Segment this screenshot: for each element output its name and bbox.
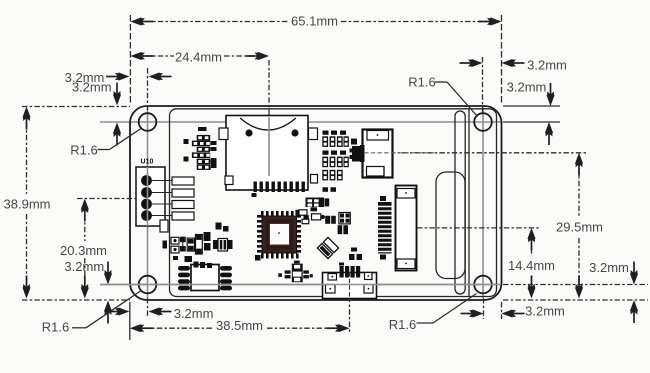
centerline horizontal through bottom holes bbox=[100, 284, 501, 286]
small parts left of MCU bbox=[255, 255, 261, 261]
crystal cross component bbox=[278, 261, 313, 283]
connector U10 bbox=[136, 159, 172, 227]
capacitor cluster right of SD bbox=[322, 131, 349, 181]
MCU QFP U2 bbox=[257, 211, 301, 259]
test pads bbox=[163, 237, 180, 253]
dim 29.5mm right bbox=[365, 153, 603, 299]
24.4 extension over SD socket bbox=[268, 117, 270, 176]
svg-text:R1.6: R1.6 bbox=[70, 143, 97, 158]
transistor U5 bbox=[350, 139, 365, 162]
svg-text:24.4mm: 24.4mm bbox=[175, 50, 222, 65]
resistor cluster left of SD bbox=[184, 127, 217, 170]
centerline over U10 bbox=[147, 167, 149, 226]
hole bottom-left bbox=[139, 276, 157, 294]
svg-text:3.2mm: 3.2mm bbox=[525, 304, 565, 319]
svg-text:3.2mm: 3.2mm bbox=[64, 259, 104, 274]
label R1.6 bottom-right bbox=[389, 294, 477, 332]
centerline horizontal through top holes bbox=[100, 121, 501, 123]
dim 3.2mm bottom-left vertical bbox=[64, 259, 112, 324]
centerline vertical through right holes bbox=[482, 108, 484, 298]
U10 pads bbox=[172, 177, 194, 220]
parts right-mid C6 R3 bbox=[349, 248, 362, 261]
svg-text:R1.6: R1.6 bbox=[42, 320, 69, 335]
display inner rect bbox=[170, 109, 497, 297]
svg-text:38.9mm: 38.9mm bbox=[4, 197, 51, 212]
hole top-left bbox=[139, 113, 157, 131]
dim 3.2mm far right vertical bbox=[503, 260, 648, 323]
38.5 extension over bottom connector bbox=[349, 272, 351, 299]
dim 3.2mm top-left vertical bbox=[72, 80, 121, 146]
bottom connector J4 bbox=[323, 263, 377, 299]
centerline vertical through left holes bbox=[147, 108, 149, 298]
dim 20.3mm left bbox=[60, 199, 136, 299]
svg-text:U10: U10 bbox=[141, 159, 154, 166]
svg-text:29.5mm: 29.5mm bbox=[556, 220, 603, 235]
centerline over bottom components bbox=[100, 284, 501, 286]
board outline bbox=[130, 106, 502, 300]
bottom edge extension left of board bbox=[22, 299, 130, 301]
fpc slot bbox=[455, 111, 465, 294]
hole top-right bbox=[474, 113, 492, 131]
SD pin row J1 bbox=[252, 182, 305, 198]
svg-text:R1.6: R1.6 bbox=[408, 75, 435, 90]
hole bottom-right bbox=[474, 276, 492, 294]
label R1.6 top-left bbox=[70, 129, 141, 158]
svg-text:R1.6: R1.6 bbox=[389, 317, 416, 332]
label R1.6 bottom-left bbox=[42, 291, 141, 335]
dim 3.2mm bottom-right horizontal bbox=[461, 298, 565, 319]
svg-text:3.2mm: 3.2mm bbox=[507, 80, 547, 95]
dim 24.4mm top bbox=[130, 50, 269, 177]
caps above SOIC bbox=[173, 223, 233, 269]
dim 65.1mm top bbox=[130, 13, 501, 104]
parts above MCU bbox=[295, 187, 350, 234]
SOIC8 flash U7 bbox=[178, 265, 232, 291]
dim 3.2mm top-right horizontal bbox=[460, 57, 567, 113]
svg-text:3.2mm: 3.2mm bbox=[527, 57, 567, 72]
glass edge line bbox=[468, 109, 470, 297]
svg-text:3.2mm: 3.2mm bbox=[72, 80, 112, 95]
fpc connector J2 bbox=[378, 186, 417, 271]
svg-text:3.2mm: 3.2mm bbox=[174, 306, 214, 321]
dim 14.4mm right bbox=[417, 228, 555, 299]
COMPONENTS bbox=[136, 116, 417, 299]
dim 3.2mm bottom-left horizontal bbox=[107, 298, 214, 321]
svg-text:38.5mm: 38.5mm bbox=[216, 318, 263, 333]
diamond parts bbox=[317, 237, 338, 258]
dim 3.2mm top-left horizontal bbox=[65, 68, 172, 110]
svg-text:3.2mm: 3.2mm bbox=[589, 260, 629, 275]
svg-text:20.3mm: 20.3mm bbox=[60, 243, 107, 258]
29.5 extension over speaker connector bbox=[364, 152, 434, 154]
svg-text:14.4mm: 14.4mm bbox=[508, 258, 555, 273]
dim 38.9mm left bbox=[4, 107, 130, 299]
dim 38.5mm bottom bbox=[130, 272, 350, 340]
fpc cable bulge bbox=[436, 172, 465, 279]
small rect top-left inner bbox=[160, 220, 168, 232]
label R1.6 top-right bbox=[408, 75, 477, 117]
svg-text:65.1mm: 65.1mm bbox=[291, 13, 338, 28]
speaker connector top-right bbox=[360, 130, 393, 179]
SD card socket bbox=[219, 116, 318, 191]
overlay centerlines over components bbox=[100, 117, 501, 299]
dim 3.2mm top-right vertical bbox=[503, 80, 560, 146]
